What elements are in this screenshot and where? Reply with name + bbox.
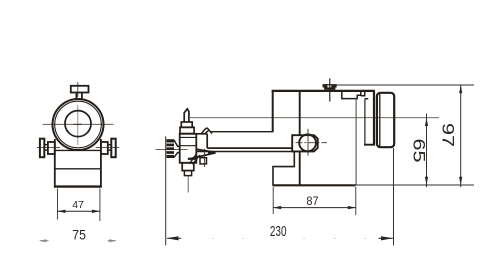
eyepiece cap <box>377 93 394 147</box>
valve drain fitting <box>184 171 191 176</box>
tick at inner circle top <box>76 110 80 112</box>
dimension 230 left extension line <box>165 136 167 245</box>
knurled knob stack <box>166 139 174 158</box>
line from spout to main body <box>211 131 273 133</box>
lever pad centerline <box>204 149 206 167</box>
clamp lever dark tip <box>208 151 215 154</box>
valve body block <box>180 134 197 163</box>
dimension 230 right arrow <box>379 236 394 240</box>
dimension 75 right arrow <box>108 239 117 242</box>
valve lower nut <box>182 163 194 171</box>
right bolt <box>111 139 115 158</box>
dimension 230 right extension line <box>393 148 395 245</box>
dimension 47 line with arrows <box>58 210 100 212</box>
barrel bottom <box>364 144 375 146</box>
dimension 230 faint line <box>181 237 378 239</box>
bottom shared extension line <box>352 184 475 186</box>
body lower-left notch <box>273 152 294 186</box>
eyepiece cap inner line <box>379 94 381 147</box>
body inner vertical line <box>299 91 301 185</box>
vertical centerline of gauge <box>77 82 79 97</box>
bolt boss circle <box>299 135 316 152</box>
left connector stem <box>44 145 48 150</box>
body top edge <box>272 90 375 92</box>
lever fork diagonals <box>189 154 200 165</box>
dimension 87 extension lines <box>273 187 356 215</box>
body bottom edge <box>273 184 356 186</box>
valve vertical centerline <box>187 176 189 193</box>
center cross mark <box>74 123 83 125</box>
gauge outer circle <box>53 99 104 150</box>
valve horizontal centerline <box>156 148 188 150</box>
boss vertical centerline <box>307 129 309 156</box>
left bolt <box>40 139 44 158</box>
right flange centerline <box>96 146 120 148</box>
top knob of gauge <box>71 86 89 100</box>
dimension 65 extra stub <box>426 114 428 118</box>
dimension 75 left arrow <box>39 239 49 242</box>
latch detail right of screw <box>342 92 369 99</box>
dimension 65 line <box>426 118 428 187</box>
bolt boss square <box>292 135 318 151</box>
valve shoulder to pipe <box>196 134 207 148</box>
clamp lever top edge <box>197 149 216 152</box>
pin collar upper <box>181 122 192 127</box>
97 top extension line <box>337 84 474 86</box>
barrel left line <box>364 99 366 145</box>
clamp lever bottom edge <box>191 153 216 159</box>
lever cross bar <box>188 158 197 160</box>
right connector stem <box>108 145 112 150</box>
svg-text:230: 230 <box>270 224 287 240</box>
top screw centerline <box>329 78 331 101</box>
knob cone neck <box>174 140 180 157</box>
left flange centerline <box>37 146 60 148</box>
body bottom edge <box>54 185 102 187</box>
lever pad square <box>200 158 207 164</box>
valve stem pin <box>184 109 189 122</box>
svg-text:65: 65 <box>410 139 429 163</box>
body left edge <box>272 90 274 132</box>
dimension 230 left arrow <box>167 236 182 240</box>
dimension 87 line <box>273 207 356 209</box>
horizontal centerline of gauge circle <box>43 123 114 125</box>
main axis centerline <box>190 117 439 119</box>
barrel right edge <box>373 91 375 146</box>
boss horizontal centerline (dashed) <box>296 142 328 144</box>
gauge rim circle <box>55 101 102 148</box>
spout hump on shoulder <box>201 128 212 133</box>
svg-text:97: 97 <box>439 123 458 147</box>
dimension 47 extension lines <box>58 189 100 222</box>
connecting pipe bottom line <box>196 151 294 153</box>
right flange plate <box>101 142 108 154</box>
svg-text:47: 47 <box>72 199 84 211</box>
connecting pipe top line <box>207 147 292 149</box>
svg-text:75: 75 <box>72 227 86 243</box>
left flange plate <box>48 142 55 154</box>
body right edge (thin) <box>355 99 357 185</box>
top screw head <box>323 84 337 90</box>
dimension 97 line <box>460 85 462 187</box>
svg-text:87: 87 <box>306 194 318 208</box>
gauge inner circle <box>65 111 91 137</box>
body horizontal line upper <box>55 149 101 151</box>
valve upper joint line <box>180 136 197 138</box>
body horizontal line lower <box>55 168 101 170</box>
gauge body rectangle <box>55 139 101 188</box>
valve bonnet joint line <box>180 145 197 147</box>
pin collar lower <box>180 127 194 133</box>
